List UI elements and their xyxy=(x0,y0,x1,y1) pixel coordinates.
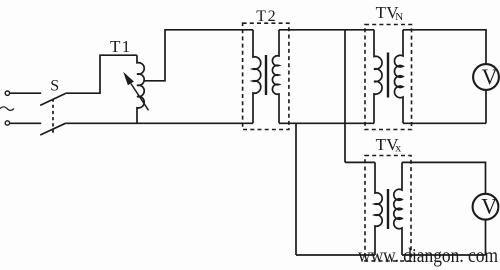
wire switch to T1 top xyxy=(66,55,137,93)
wire TVX secondary to voltmeter VX xyxy=(402,162,486,193)
AC source terminal bottom xyxy=(5,121,9,125)
T2 secondary winding xyxy=(272,30,279,124)
wire TVN secondary to voltmeter VN xyxy=(403,30,486,64)
svg-text:1: 1 xyxy=(122,37,131,56)
TVX core xyxy=(387,189,389,229)
svg-text:V: V xyxy=(481,194,497,219)
transformer TVX dashed box xyxy=(365,156,411,262)
T1 wiper arrow shaft xyxy=(131,84,149,111)
svg-text:T: T xyxy=(256,8,266,25)
wire bottom rail T2 to TVN xyxy=(279,122,374,124)
svg-text:2: 2 xyxy=(268,8,276,25)
voltmeter VX circle xyxy=(473,194,499,220)
wire bottom TVX primary return xyxy=(296,254,375,256)
transformer TVN dashed box xyxy=(365,25,412,130)
switch S blade top xyxy=(40,93,65,105)
wire top rail T2 to TVN xyxy=(279,29,374,31)
T2 core xyxy=(265,55,267,95)
wire voltmeter VX return xyxy=(402,220,486,255)
wire bottom feed to switch xyxy=(10,122,41,124)
svg-text:x: x xyxy=(395,140,401,154)
svg-text:V: V xyxy=(482,64,498,89)
svg-text:T: T xyxy=(376,135,387,154)
TVN core xyxy=(387,53,389,98)
wire top feed to switch xyxy=(10,92,41,94)
svg-text:T: T xyxy=(110,37,121,56)
switch S blade bottom xyxy=(40,123,65,135)
svg-text:N: N xyxy=(395,11,403,23)
wire branch down to TVX primary feed xyxy=(345,30,375,163)
wire T1 tap to top rail xyxy=(143,30,253,81)
wire voltmeter VN return xyxy=(403,90,486,123)
T1 wiper arrowhead xyxy=(123,72,134,86)
switch S mechanical link (dashed) xyxy=(52,99,54,134)
svg-text:www. diangon. com: www. diangon. com xyxy=(358,245,498,267)
TVX primary winding xyxy=(375,162,382,255)
wire bottom bus switch to T2 xyxy=(66,122,253,124)
wire branch down to TVX return xyxy=(295,123,297,255)
TVN secondary winding xyxy=(394,30,403,124)
transformer T2 dashed box xyxy=(243,23,289,129)
T2 primary winding xyxy=(253,30,261,124)
AC source terminal top xyxy=(5,91,9,95)
TVX secondary winding xyxy=(394,162,402,255)
voltmeter VN circle xyxy=(473,64,499,90)
svg-text:S: S xyxy=(50,78,59,95)
transformer T1 winding xyxy=(137,55,144,123)
AC tilde symbol xyxy=(0,107,14,111)
TVN primary winding xyxy=(374,30,382,124)
svg-text:T: T xyxy=(376,3,387,22)
